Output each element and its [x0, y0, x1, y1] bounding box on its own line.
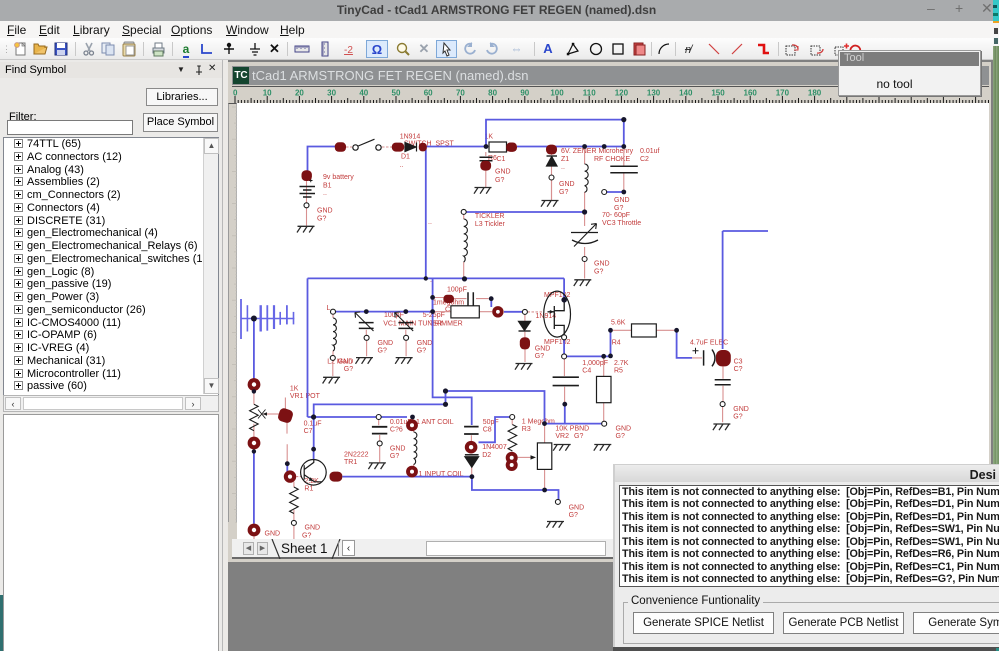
wire D2 gnd run: [472, 477, 559, 500]
svg-text:GND: GND: [594, 261, 610, 268]
wire top rail: [486, 120, 624, 147]
svg-text:1N914: 1N914: [536, 313, 557, 320]
svg-text:G?: G?: [559, 189, 568, 196]
svg-text:G?: G?: [495, 177, 504, 184]
svg-text:9v battery: 9v battery: [323, 174, 354, 181]
lead VR2 wiper: [518, 456, 533, 458]
wire antenna feed: [253, 319, 255, 379]
wire tickler to choke: [466, 211, 585, 213]
wire VR1 to gnd blob: [253, 451, 255, 523]
donut TR1 base: [284, 470, 296, 482]
wire TR1 collector rail: [314, 404, 446, 449]
svg-text:G?: G?: [417, 348, 426, 355]
main window title bar: [0, 0, 993, 21]
svg-text:1K: 1K: [290, 386, 299, 393]
svg-text:G?: G?: [733, 414, 742, 421]
wire Q2 source rail: [564, 340, 610, 357]
svg-text:1N4007: 1N4007: [482, 444, 507, 451]
svg-text:G?: G?: [535, 353, 544, 360]
svg-text:R1: R1: [304, 486, 313, 493]
component bodies (black): [250, 139, 731, 513]
svg-text:GND: GND: [616, 426, 632, 433]
potentiometer VR1 zigzag: [250, 404, 259, 430]
wire R4 right drop: [677, 330, 692, 358]
lead R5: [603, 356, 605, 423]
ant coil L1: [414, 432, 417, 465]
svg-text:G?: G?: [569, 512, 578, 519]
donut VR1 gnd: [248, 524, 261, 537]
resistor R4 box: [632, 324, 657, 337]
svg-text:GND: GND: [338, 359, 354, 366]
splitter strip: [222, 60, 228, 651]
transistor TR1: [301, 460, 327, 486]
open node circles: [291, 175, 725, 525]
tree v scrollbar: [203, 138, 218, 394]
blob C7 rotated: [277, 407, 294, 424]
wire R3 to D2 link: [479, 417, 510, 442]
svg-text:R4: R4: [612, 340, 621, 347]
blob C5 left: [443, 295, 454, 303]
donut VR2 wiper pair: [506, 452, 518, 464]
donut INPUT coil: [406, 466, 418, 478]
svg-text:C1: C1: [497, 156, 506, 163]
lead C2: [623, 147, 625, 193]
svg-text:GND: GND: [317, 208, 333, 215]
wire D1 to R6: [426, 146, 486, 148]
Tool popup: [838, 50, 981, 96]
svg-text:GND: GND: [265, 531, 281, 538]
svg-text:G?: G?: [574, 433, 583, 440]
resistor R6 box: [489, 142, 507, 152]
wire C7 to TR1 base: [286, 464, 288, 472]
variable cap VC1: [359, 323, 374, 329]
lead antcoil: [413, 431, 415, 467]
wire R6 to C2 corner: [517, 146, 624, 148]
svg-text:..: ..: [561, 164, 565, 171]
menu bar: [0, 21, 993, 38]
svg-text:GND: GND: [495, 169, 511, 176]
red label texts: [265, 134, 749, 540]
lead switch dashes: [346, 146, 392, 148]
svg-text:6V. ZENER: 6V. ZENER: [561, 148, 597, 155]
svg-text:RF CHOKE: RF CHOKE: [594, 156, 631, 163]
svg-text:GND: GND: [614, 197, 630, 204]
lead C?6: [379, 420, 380, 463]
donut R2 right: [492, 306, 503, 317]
wire TR1 collector stub: [313, 449, 315, 460]
svg-text:G?: G?: [614, 205, 623, 212]
svg-text:Z1: Z1: [561, 156, 569, 163]
blob J2: [392, 143, 404, 152]
variable cap VC3: [571, 233, 598, 244]
red component leads: [254, 147, 723, 540]
svg-text:0.1uF: 0.1uF: [304, 421, 322, 428]
tickler L3 coil: [464, 219, 468, 262]
svg-text:TICKLER: TICKLER: [475, 213, 505, 220]
empty preview box: [3, 414, 219, 651]
svg-text:L3 Tickler: L3 Tickler: [475, 221, 506, 228]
svg-text:C?: C?: [734, 366, 743, 373]
left Find Symbol panel: [0, 60, 222, 651]
wire R2 node: [491, 299, 522, 312]
svg-text:G?: G?: [378, 348, 387, 355]
svg-text:C7: C7: [304, 428, 313, 435]
wire vert through dot C5: [432, 297, 434, 311]
svg-text:G?: G?: [317, 216, 326, 223]
lead R4: [613, 329, 677, 331]
switch SW1: [353, 145, 358, 150]
capacitor C1 plates: [480, 157, 493, 161]
svg-text:VR1 POT: VR1 POT: [290, 393, 321, 400]
svg-text:2.7K: 2.7K: [614, 360, 629, 367]
blob J3: [419, 143, 427, 152]
potentiometer VR2 box: [537, 443, 551, 470]
capacitor C5 plates: [468, 292, 473, 305]
svg-text:C4: C4: [582, 368, 591, 375]
wire gnd bus: [545, 423, 602, 425]
resistor R5 box: [597, 376, 612, 402]
toolbar: [0, 38, 993, 60]
wire C2 gnd: [607, 191, 624, 193]
svg-text:C3: C3: [734, 359, 743, 366]
svg-text:2N2222: 2N2222: [344, 452, 369, 459]
svg-text:G?: G?: [344, 366, 353, 373]
lead Q1 gate dash: [528, 311, 544, 313]
battery B1 plates: [300, 187, 316, 198]
blob TR1 emitter: [330, 472, 343, 482]
wire TR1 emitter to D2: [342, 476, 472, 478]
svg-text:0.01uf: 0.01uf: [640, 148, 660, 155]
RF choke coil: [585, 164, 589, 192]
capacitor C4 plates: [553, 377, 579, 385]
wire Q2 drain: [563, 278, 565, 298]
lead R3: [511, 420, 513, 455]
svg-text:GND: GND: [733, 406, 749, 413]
lead C4: [563, 359, 565, 402]
blob J1: [335, 142, 346, 152]
svg-text:..: ..: [400, 162, 404, 169]
wire to VR2 column: [446, 391, 545, 424]
donut VR1 bottom: [248, 437, 261, 450]
blob zener top: [546, 145, 557, 155]
svg-text:D1: D1: [401, 154, 410, 161]
L2 coil: [333, 318, 336, 351]
svg-text:C?6: C?6: [390, 427, 403, 434]
resistor R2 box: [451, 306, 479, 318]
lead D3: [524, 314, 526, 362]
lead C8 D2: [470, 435, 472, 474]
tree h scrollbar: [3, 395, 219, 412]
lead zener: [551, 152, 553, 200]
blob D3 gnd: [520, 337, 530, 349]
svg-text:TRIMMER: TRIMMER: [430, 321, 463, 328]
svg-text:C2: C2: [640, 156, 649, 163]
blue wires: [254, 120, 768, 524]
resistor R3 zigzag: [508, 425, 517, 451]
donut nodes (dark red with hole): [248, 306, 518, 536]
wire mid horizontal rail: [308, 277, 565, 279]
svg-text:C8: C8: [483, 427, 492, 434]
blob battery top: [302, 170, 312, 181]
svg-text:GND: GND: [569, 505, 585, 512]
svg-text:GND: GND: [390, 446, 406, 453]
wire dot link: [445, 391, 447, 404]
svg-text:R3: R3: [522, 426, 531, 433]
lead trimmer: [405, 330, 407, 357]
wire battery corner: [308, 147, 336, 173]
svg-text:70- 60pF: 70- 60pF: [602, 212, 630, 219]
svg-text:B1: B1: [323, 183, 332, 190]
svg-text:D2: D2: [482, 452, 491, 459]
blob C1: [480, 161, 491, 171]
desktop wallpaper strip: [993, 0, 999, 651]
svg-text:G?: G?: [390, 453, 399, 460]
Design dialog: [613, 464, 999, 651]
svg-text:VR2: VR2: [555, 433, 569, 440]
wire C4 bottom: [564, 404, 566, 423]
lead VR1: [253, 391, 255, 539]
junction blobs (dark red): [277, 142, 731, 481]
antenna (blue): [241, 299, 294, 339]
wire left down rail: [307, 278, 309, 417]
wire main tuner: [336, 311, 433, 313]
lead VR1 wiper: [263, 413, 279, 415]
junction dots (dark): [251, 117, 679, 492]
donut VR1 top: [248, 378, 261, 391]
lead battery: [306, 181, 308, 226]
lead L2: [332, 314, 334, 376]
svg-text:TR1: TR1: [344, 459, 357, 466]
wire C3 top rail: [723, 231, 768, 349]
blob R6 right: [506, 143, 517, 152]
svg-text:GND: GND: [417, 340, 433, 347]
lead C3: [692, 358, 723, 422]
svg-text:L: L: [327, 305, 331, 312]
wire to ant coil: [308, 416, 408, 418]
blob C3: [716, 350, 731, 366]
lead VC1: [365, 330, 367, 357]
lead C1: [485, 152, 487, 187]
lead C5 R2: [435, 298, 492, 312]
lead R1: [293, 482, 295, 539]
svg-text:GND: GND: [378, 340, 394, 347]
FET Q2: [544, 291, 571, 337]
resistor R1 zigzag: [290, 487, 299, 514]
diode D3: [519, 321, 531, 330]
svg-text:50pF: 50pF: [483, 419, 499, 426]
lead TR1 base dash: [296, 476, 301, 478]
svg-text:G?: G?: [594, 269, 603, 276]
trimmer cap: [398, 323, 413, 329]
donut ANT coil: [406, 419, 418, 431]
capacitor C?6 plates: [372, 427, 387, 434]
svg-text:VC3 Throttle: VC3 Throttle: [602, 220, 641, 227]
capacitor C3 elec: [704, 350, 715, 367]
svg-text:100pF: 100pF: [447, 287, 467, 294]
svg-text:10K PBND: 10K PBND: [555, 426, 589, 433]
svg-text:1 ANT COIL: 1 ANT COIL: [416, 419, 454, 426]
svg-text:..: ..: [323, 190, 327, 197]
svg-text:R5: R5: [614, 368, 623, 375]
ground symbols: [297, 226, 315, 232]
donut D2 top: [465, 441, 478, 454]
svg-text:GND: GND: [305, 525, 321, 532]
lead zener gnd2: [551, 180, 553, 200]
svg-text:GND: GND: [535, 346, 551, 353]
wire D1 down rail: [425, 147, 427, 279]
capacitor C2 plates: [610, 166, 638, 172]
zener Z1: [547, 157, 558, 167]
svg-text:Microhenry: Microhenry: [599, 148, 634, 155]
lead VR2: [544, 425, 546, 490]
lead tickler: [463, 214, 465, 278]
MDI area: [228, 60, 993, 651]
svg-text:1N914: 1N914: [400, 134, 421, 141]
svg-text:G?: G?: [616, 433, 625, 440]
wire tuner down rail: [433, 278, 472, 425]
svg-text:5.6K: 5.6K: [611, 320, 626, 327]
svg-text:..: ..: [428, 219, 432, 226]
diode D2: [465, 454, 479, 456]
wire R4 left drop: [610, 330, 612, 356]
svg-text:GND: GND: [559, 181, 575, 188]
diode D1: [405, 143, 417, 152]
lead VC3: [584, 212, 586, 279]
lead choke: [584, 147, 586, 213]
lead C7: [285, 398, 287, 462]
capacitor C8 plates: [464, 427, 479, 434]
svg-text:G?: G?: [302, 533, 311, 540]
